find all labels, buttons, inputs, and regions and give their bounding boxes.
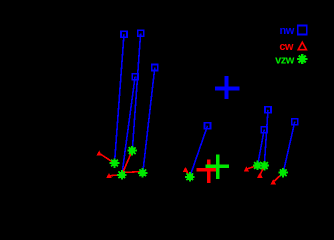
svg-text:nw: nw <box>280 25 295 37</box>
svg-text:vzw: vzw <box>275 54 295 66</box>
svg-text:cw: cw <box>279 41 294 53</box>
